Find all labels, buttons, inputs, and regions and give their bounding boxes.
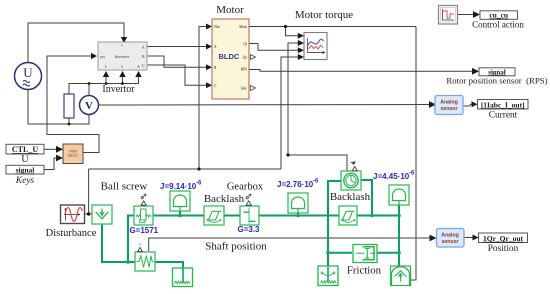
svg-text:Gearbox: Gearbox bbox=[227, 182, 264, 193]
inertia dome J2 bbox=[288, 193, 308, 213]
AC source U1 bbox=[15, 63, 42, 90]
svg-text:BLDC: BLDC bbox=[219, 52, 240, 61]
arrow into analog sensor 1 bbox=[429, 101, 436, 108]
resistor shunt R1 bbox=[64, 94, 74, 118]
arrow into PWM in2 bbox=[56, 155, 63, 162]
svg-text:-6: -6 bbox=[409, 171, 415, 177]
svg-text:Control action: Control action bbox=[472, 20, 524, 30]
wire invertor C to BLDC C bbox=[147, 65, 211, 85]
wire dome2 stub bbox=[297, 213, 299, 216]
block Iabc_I_out bbox=[478, 100, 529, 110]
wire Mom long vertical to torque block bbox=[411, 27, 417, 281]
svg-text:C: C bbox=[142, 63, 145, 68]
marker rotation source arrow bbox=[352, 162, 356, 166]
analog sensor 1 bbox=[435, 96, 463, 115]
wire rail gearbox to backlash2 bbox=[259, 215, 339, 217]
svg-text:Motor: Motor bbox=[216, 4, 244, 16]
svg-text:Invertor: Invertor bbox=[115, 54, 130, 59]
svg-text:J=9.14·10: J=9.14·10 bbox=[160, 182, 197, 191]
svg-text:-6: -6 bbox=[196, 181, 202, 187]
svg-text:V: V bbox=[85, 100, 93, 112]
arrow into cu_cu bbox=[473, 11, 480, 18]
wire lower rail up to ball screw bbox=[128, 216, 134, 263]
marker spring triangle bbox=[138, 248, 143, 252]
svg-text:Qe: Qe bbox=[243, 56, 248, 60]
invertor block U2 bbox=[98, 42, 147, 70]
svg-text:Analog: Analog bbox=[441, 233, 459, 239]
svg-text:Mom: Mom bbox=[239, 25, 247, 29]
svg-text:-6: -6 bbox=[313, 179, 319, 185]
svg-text:Backlash: Backlash bbox=[204, 193, 245, 205]
junction dot Mom bbox=[284, 25, 287, 28]
svg-text:Win: Win bbox=[214, 25, 220, 29]
arrow into BLDC Win bbox=[206, 24, 212, 30]
wire signal keys to PWM bbox=[44, 158, 60, 170]
svg-text:*: * bbox=[121, 44, 123, 49]
disturbance source block bbox=[61, 205, 85, 224]
wire bottom rail U minus bbox=[28, 90, 89, 124]
svg-text:signal: signal bbox=[16, 166, 35, 175]
svg-text:[1Iabc_I_out]: [1Iabc_I_out] bbox=[481, 100, 525, 109]
arrow into invertor top bbox=[121, 37, 127, 43]
wire friction row right bbox=[376, 252, 399, 254]
wire U top to Invertor top bbox=[28, 23, 124, 62]
wire V top stub bbox=[88, 84, 90, 96]
junction dot friction right bbox=[397, 251, 401, 255]
wire CTL_U to PWM bbox=[44, 149, 60, 169]
arrow scope in1 bbox=[298, 33, 304, 39]
wire Qr to scope in3 bbox=[249, 44, 300, 51]
arrow scope in4 bbox=[298, 54, 304, 60]
arrow scope in3 bbox=[298, 47, 304, 53]
svg-text:G=1571: G=1571 bbox=[129, 226, 158, 235]
wire dome3 vertical bbox=[398, 205, 400, 266]
scope2 control action source bbox=[439, 6, 458, 25]
chevron block linear source bbox=[92, 205, 112, 224]
svg-text:1Qr_Qr_out: 1Qr_Qr_out bbox=[483, 234, 523, 243]
svg-text:sensor: sensor bbox=[441, 239, 458, 245]
wire resistor bottom stub bbox=[68, 118, 70, 124]
svg-text:уи: уи bbox=[100, 54, 105, 59]
wire main rail ball screw to backlash bbox=[153, 215, 204, 217]
svg-text:Friction: Friction bbox=[347, 265, 382, 277]
svg-text:Iabc: Iabc bbox=[241, 87, 248, 91]
inertia dome J1 bbox=[170, 191, 190, 211]
block signal RPS out bbox=[479, 68, 515, 77]
arrow into BLDC A bbox=[206, 44, 212, 50]
arrow into Iabc out block bbox=[472, 101, 478, 107]
wire disturbance horizontal bbox=[89, 168, 281, 170]
junction dot bus1 bbox=[105, 82, 108, 85]
svg-text:Shaft position: Shaft position bbox=[205, 241, 267, 253]
wire Analog sensor 1 output bbox=[463, 104, 475, 106]
junction dot resistor bottom bbox=[68, 123, 71, 126]
junction dot lower rail bbox=[126, 260, 130, 264]
svg-text:U: U bbox=[23, 65, 33, 80]
marker ball screw angle port bbox=[141, 194, 146, 199]
svg-text:(BLDC): (BLDC) bbox=[68, 154, 79, 158]
arrow scope in2 bbox=[298, 40, 304, 46]
voltmeter V1 bbox=[80, 96, 99, 115]
junction dot V top bus bbox=[88, 82, 91, 85]
spring block bbox=[135, 252, 155, 271]
motor BLDC U3 bbox=[212, 19, 256, 99]
rotation source block bbox=[341, 171, 361, 190]
marker gearbox angle port bbox=[246, 194, 251, 199]
svg-text:A: A bbox=[142, 45, 145, 50]
block Qr_out bbox=[479, 233, 528, 243]
wire disturbance branch to scope in4 bbox=[281, 57, 300, 169]
wire torque net to scope in2 and rotation source bbox=[288, 43, 347, 171]
block cu_cu bbox=[480, 11, 518, 20]
arrow into Qr out block bbox=[473, 235, 479, 241]
block CTL_U bbox=[6, 144, 44, 154]
support block bbox=[173, 268, 193, 287]
wire bus arrow stub 1 bbox=[105, 73, 107, 84]
junction dot friction left bbox=[326, 251, 330, 255]
junction dot Win T bbox=[197, 167, 200, 170]
wire invertor A to BLDC A bbox=[147, 46, 211, 48]
marker ball screw triangle bbox=[141, 201, 146, 205]
junction dot torque corner bbox=[286, 153, 289, 156]
friction block bbox=[353, 245, 377, 263]
svg-text:RPS: RPS bbox=[241, 68, 247, 72]
ball screw block bbox=[134, 206, 153, 225]
arrow into PWM in1 bbox=[56, 146, 63, 153]
svg-text:U: U bbox=[21, 154, 29, 165]
arrow into signal block bbox=[472, 68, 479, 75]
wire disturbance source to junction bbox=[85, 213, 93, 215]
gearbox block bbox=[240, 206, 259, 225]
svg-text:Disturbance: Disturbance bbox=[46, 228, 97, 239]
wire shaft position sensor line bbox=[149, 238, 434, 251]
arrow bus up 2 bbox=[119, 71, 125, 77]
wire chevron down to lower rail bbox=[102, 224, 135, 262]
svg-text:B: B bbox=[142, 54, 145, 59]
svg-text:Position: Position bbox=[488, 244, 519, 254]
svg-text:Λ: Λ bbox=[137, 64, 140, 69]
svg-text:sensor: sensor bbox=[440, 106, 457, 112]
svg-text:CTL_U: CTL_U bbox=[12, 145, 38, 154]
wire resistor top bus to invertor bottom bbox=[69, 73, 139, 94]
pin Iabc out triangle bbox=[251, 86, 256, 91]
svg-text:Rotor position sensor (RPS): Rotor position sensor (RPS) bbox=[446, 76, 547, 86]
arrow into invertor uy bbox=[91, 53, 97, 59]
block signal keys bbox=[6, 165, 44, 174]
wire scope2 to cu_cu bbox=[458, 14, 478, 16]
wire Analog sensor 2 output bbox=[464, 237, 476, 239]
wire rotation source left to friction cluster bbox=[328, 181, 341, 281]
arrow into BLDC B bbox=[206, 64, 212, 70]
scope motor torque bbox=[304, 33, 327, 60]
arrow bus up 1 bbox=[103, 71, 109, 77]
wire invertor B to BLDC B bbox=[147, 56, 211, 67]
junction dot dome2 bbox=[296, 214, 300, 218]
junction dot dome3 rail bbox=[397, 214, 401, 218]
junction dot disturbance bbox=[87, 212, 90, 215]
backlash block 2 bbox=[339, 206, 357, 225]
wire rail backlash2 to vertical bbox=[357, 215, 399, 217]
green mechanical wires bbox=[102, 180, 399, 281]
svg-text:G=3.3: G=3.3 bbox=[237, 225, 260, 234]
junction dot dome1 bbox=[178, 214, 182, 218]
dish block rotational support bbox=[318, 266, 338, 286]
wire disturbance net to Win bbox=[199, 27, 211, 170]
wire Mom branch to scope in1 bbox=[286, 27, 301, 36]
torque block up arrow bbox=[391, 266, 411, 286]
svg-text:Ball screw: Ball screw bbox=[101, 181, 148, 193]
analog sensor 2 bbox=[437, 229, 465, 248]
wire dome1 stub bbox=[179, 211, 181, 216]
wire PWM output to Invertor uy input bbox=[47, 56, 99, 153]
svg-text:Analog: Analog bbox=[440, 100, 458, 106]
svg-text:Motor torque: Motor torque bbox=[295, 9, 353, 21]
svg-text:Current: Current bbox=[489, 111, 518, 121]
svg-text:Invertor: Invertor bbox=[102, 84, 135, 95]
wire RPS to signal block bbox=[249, 70, 477, 72]
inertia dome J3 bbox=[389, 185, 409, 205]
marker rotation source triangle bbox=[352, 167, 357, 171]
wire friction row left bbox=[328, 252, 352, 254]
junction dot bus2 bbox=[121, 82, 124, 85]
junction dot rotation source bbox=[370, 214, 374, 218]
wire Mom to right vertical bbox=[249, 26, 416, 28]
marker gearbox triangle bbox=[246, 201, 251, 205]
arrow bus up 3 bbox=[135, 71, 141, 77]
svg-text:A: A bbox=[214, 45, 217, 49]
wire current V to Analog sensor bbox=[99, 104, 435, 107]
svg-text:Backlash: Backlash bbox=[330, 191, 371, 203]
arrow into analog sensor 2 bbox=[430, 235, 437, 242]
arrow into BLDC C bbox=[206, 82, 212, 88]
svg-text:J=2.76·10: J=2.76·10 bbox=[277, 180, 314, 189]
backlash block 1 bbox=[204, 206, 224, 225]
wire bus arrow stub 2 bbox=[122, 73, 124, 84]
svg-text:Keys: Keys bbox=[15, 176, 35, 186]
svg-text:J=4.45·10: J=4.45·10 bbox=[373, 172, 410, 181]
wire spring to support bbox=[155, 262, 183, 269]
wire rotation source to rail bbox=[361, 180, 372, 216]
wire rail backlash to gearbox bbox=[224, 215, 240, 217]
wire disturbance vertical bbox=[88, 169, 90, 214]
pin Qe out triangle bbox=[251, 55, 256, 60]
PWM block bbox=[63, 144, 83, 164]
svg-text:cu_cu: cu_cu bbox=[489, 11, 508, 20]
